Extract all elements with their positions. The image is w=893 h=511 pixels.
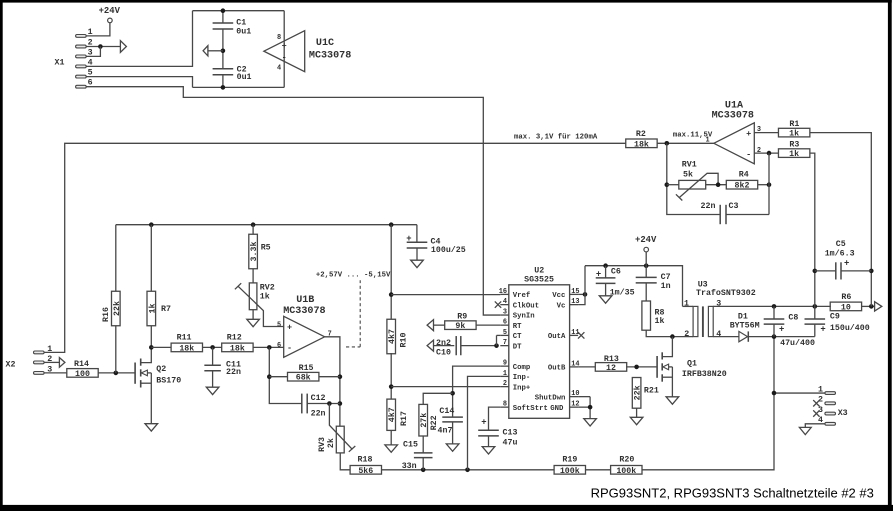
svg-text:R12: R12 (227, 334, 242, 343)
svg-text:X3: X3 (838, 409, 848, 418)
svg-text:Vc: Vc (557, 302, 566, 310)
svg-text:R11: R11 (177, 334, 192, 343)
svg-text:SG3525: SG3525 (524, 276, 554, 285)
svg-text:27k: 27k (419, 413, 429, 428)
svg-text:R6: R6 (841, 293, 851, 302)
svg-text:2: 2 (684, 330, 689, 339)
svg-text:Vref: Vref (513, 292, 531, 300)
svg-text:max.11,5V: max.11,5V (673, 131, 713, 139)
svg-text:+: + (746, 129, 751, 139)
svg-text:R16: R16 (102, 307, 111, 322)
svg-text:GND: GND (550, 405, 564, 413)
svg-text:R4: R4 (739, 171, 749, 180)
svg-text:9: 9 (503, 360, 507, 368)
svg-text:1m/6.3: 1m/6.3 (825, 249, 855, 259)
svg-text:0u1: 0u1 (237, 73, 252, 82)
svg-text:22k: 22k (112, 301, 122, 316)
svg-text:22n: 22n (226, 368, 241, 377)
svg-text:R3: R3 (789, 141, 799, 150)
svg-text:max. 3,1V für 120mA: max. 3,1V für 120mA (514, 133, 598, 141)
svg-text:R5: R5 (261, 243, 271, 252)
svg-text:1: 1 (503, 370, 507, 378)
svg-text:7: 7 (503, 339, 507, 347)
svg-text:R14: R14 (74, 360, 89, 369)
svg-text:MC33078: MC33078 (283, 306, 325, 317)
svg-text:Q2: Q2 (156, 365, 166, 374)
svg-text:+: + (820, 324, 825, 334)
svg-text:+24V: +24V (635, 235, 657, 245)
svg-text:2k: 2k (326, 438, 336, 448)
svg-text:0u1: 0u1 (236, 28, 251, 37)
svg-text:1m/35: 1m/35 (610, 288, 635, 298)
svg-text:+: + (596, 270, 601, 280)
svg-text:Inp+: Inp+ (513, 384, 531, 392)
svg-text:C12: C12 (311, 394, 326, 403)
svg-text:5: 5 (277, 321, 281, 329)
svg-text:+: + (282, 41, 287, 51)
svg-text:4: 4 (277, 65, 281, 73)
svg-text:18k: 18k (179, 343, 194, 353)
svg-text:SoftStrt: SoftStrt (513, 405, 548, 413)
svg-text:C6: C6 (611, 267, 621, 276)
svg-text:10: 10 (841, 303, 851, 312)
svg-text:U2: U2 (534, 267, 544, 276)
svg-text:C15: C15 (403, 441, 418, 450)
svg-text:8k2: 8k2 (735, 181, 750, 191)
svg-text:R21: R21 (644, 386, 659, 395)
svg-text:R22: R22 (430, 415, 439, 430)
svg-text:4k7: 4k7 (387, 329, 397, 344)
svg-text:18k: 18k (230, 343, 245, 353)
svg-text:Inp-: Inp- (513, 374, 531, 382)
svg-text:5k: 5k (683, 170, 693, 180)
svg-text:RPG93SNT2, RPG93SNT3 Schaltnet: RPG93SNT2, RPG93SNT3 Schaltnetzteile #2 … (591, 485, 874, 500)
svg-text:SynIn: SynIn (513, 313, 535, 321)
svg-text:6: 6 (503, 319, 507, 327)
svg-text:IRFB38N20: IRFB38N20 (682, 370, 727, 379)
svg-text:Vcc: Vcc (552, 292, 565, 300)
svg-text:33n: 33n (402, 462, 417, 471)
svg-text:C10: C10 (436, 349, 451, 358)
svg-text:100: 100 (75, 370, 90, 379)
svg-text:150u/400: 150u/400 (830, 323, 870, 333)
svg-text:C14: C14 (439, 407, 454, 416)
svg-text:RV1: RV1 (682, 161, 697, 170)
svg-text:1k: 1k (789, 149, 799, 159)
svg-text:X1: X1 (55, 59, 65, 68)
svg-text:3.3k: 3.3k (249, 242, 259, 262)
svg-text:R13: R13 (604, 355, 619, 364)
svg-text:1k: 1k (655, 316, 665, 326)
svg-text:R7: R7 (161, 305, 171, 314)
svg-text:RT: RT (513, 323, 522, 331)
svg-text:C13: C13 (503, 428, 518, 437)
svg-text:47u/400: 47u/400 (780, 338, 815, 348)
svg-text:DT: DT (513, 343, 522, 351)
svg-text:RV3: RV3 (318, 437, 327, 452)
svg-text:1n: 1n (661, 282, 671, 291)
svg-text:9k: 9k (455, 321, 465, 331)
svg-text:+: + (287, 322, 292, 332)
svg-text:D1: D1 (738, 312, 748, 321)
svg-text:2: 2 (503, 380, 507, 388)
svg-text:MC33078: MC33078 (309, 50, 351, 61)
svg-text:100u/25: 100u/25 (431, 245, 466, 255)
svg-text:ShutDwn: ShutDwn (535, 394, 566, 402)
svg-text:+: + (844, 259, 849, 269)
svg-text:BYT56M: BYT56M (730, 322, 760, 331)
svg-text:R8: R8 (655, 308, 665, 317)
svg-text:1: 1 (684, 299, 689, 308)
svg-text:4k7: 4k7 (387, 407, 397, 422)
svg-text:+2,57V ... -5,15V: +2,57V ... -5,15V (316, 272, 391, 280)
svg-text:Comp: Comp (513, 364, 531, 372)
svg-text:R20: R20 (619, 456, 634, 465)
svg-text:2: 2 (757, 147, 761, 155)
svg-text:+: + (481, 418, 486, 428)
svg-text:OutA: OutA (548, 333, 566, 341)
svg-text:68k: 68k (296, 373, 311, 383)
svg-text:C8: C8 (788, 314, 798, 323)
svg-text:100k: 100k (616, 466, 636, 476)
svg-text:R19: R19 (562, 456, 577, 465)
svg-text:U1B: U1B (296, 295, 314, 306)
svg-text:OutB: OutB (548, 365, 566, 373)
svg-text:MC33078: MC33078 (712, 110, 754, 121)
svg-text:100k: 100k (560, 466, 580, 476)
svg-text:R18: R18 (358, 456, 373, 465)
svg-text:Q1: Q1 (687, 359, 697, 368)
svg-text:R15: R15 (299, 364, 314, 373)
svg-text:22n: 22n (701, 202, 716, 211)
svg-text:R1: R1 (789, 120, 799, 129)
svg-text:R17: R17 (400, 411, 409, 426)
svg-text:ClkOut: ClkOut (513, 302, 539, 310)
svg-text:1k: 1k (147, 304, 157, 314)
svg-text:-: - (282, 53, 287, 63)
svg-text:6: 6 (277, 342, 281, 350)
svg-text:3: 3 (503, 308, 507, 316)
svg-text:C5: C5 (836, 240, 846, 249)
svg-text:+: + (406, 234, 411, 244)
svg-text:47u: 47u (503, 439, 518, 448)
svg-text:C9: C9 (830, 313, 840, 322)
svg-text:8: 8 (277, 34, 281, 42)
svg-text:8: 8 (503, 401, 507, 409)
svg-text:2n2: 2n2 (436, 339, 451, 348)
svg-text:4: 4 (503, 298, 507, 306)
svg-text:TrafoSNT9302: TrafoSNT9302 (696, 288, 756, 298)
svg-text:22n: 22n (311, 410, 326, 419)
svg-text:U1C: U1C (316, 38, 334, 49)
svg-text:-: - (287, 343, 292, 353)
svg-text:22k: 22k (633, 385, 643, 400)
svg-text:C7: C7 (661, 273, 671, 282)
svg-text:+24V: +24V (99, 6, 121, 16)
svg-text:+: + (779, 324, 784, 334)
svg-text:C3: C3 (729, 202, 739, 211)
svg-text:18k: 18k (634, 139, 649, 149)
svg-text:4: 4 (716, 330, 721, 339)
svg-text:C1: C1 (236, 19, 246, 28)
svg-text:RV2: RV2 (260, 284, 275, 293)
svg-text:1k: 1k (789, 129, 799, 139)
svg-text:12: 12 (606, 364, 616, 373)
svg-text:R2: R2 (636, 130, 646, 139)
svg-text:5: 5 (503, 329, 507, 337)
svg-text:-: - (746, 149, 751, 159)
svg-text:CT: CT (513, 333, 522, 341)
svg-text:5k6: 5k6 (358, 466, 373, 476)
svg-text:1k: 1k (260, 291, 270, 301)
svg-text:BS170: BS170 (156, 376, 181, 385)
svg-text:4n7: 4n7 (438, 427, 453, 436)
svg-text:X2: X2 (6, 361, 16, 370)
svg-text:R10: R10 (399, 333, 408, 348)
svg-text:R9: R9 (457, 312, 467, 321)
